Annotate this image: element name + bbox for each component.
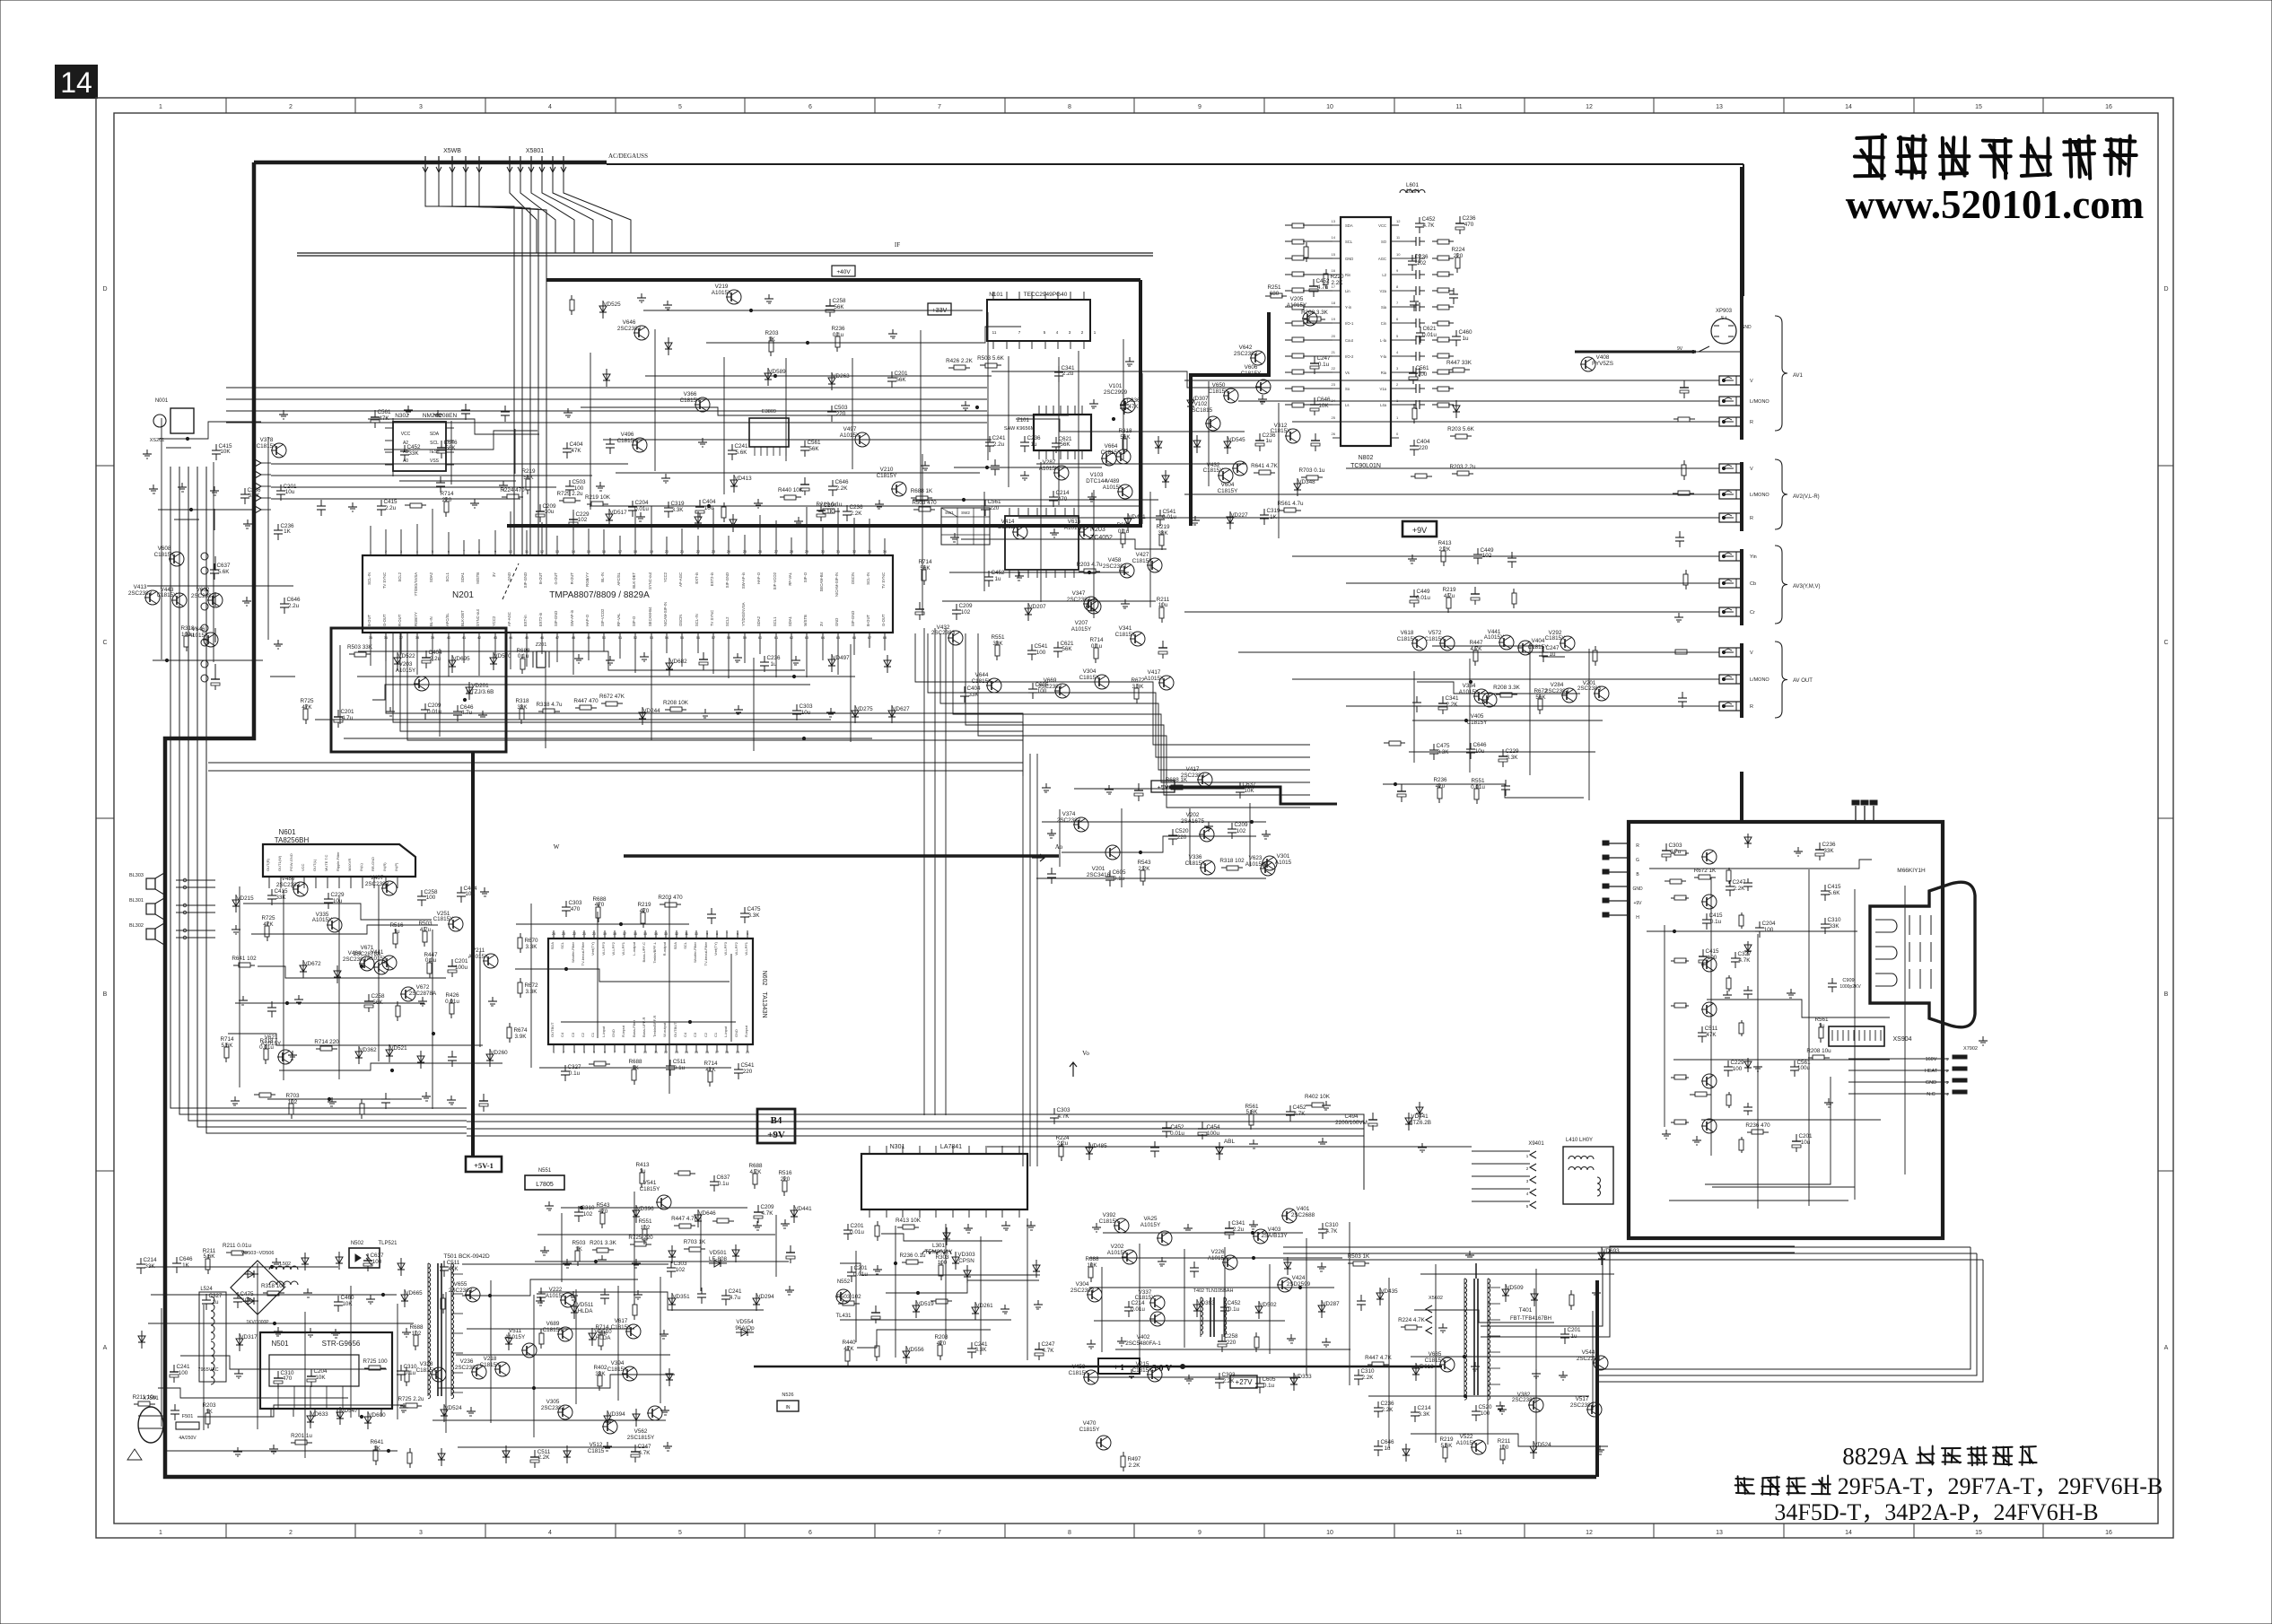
svg-text:OUT1(W): OUT1(W) [277, 855, 282, 871]
resistor [1142, 866, 1144, 870]
svg-text:R208: R208 [934, 1334, 948, 1340]
svg-text:BL-IN: BL-IN [429, 616, 433, 626]
svg-text:19: 19 [650, 549, 654, 554]
svg-text:C1815Y: C1815Y [1132, 1367, 1154, 1374]
svg-text:R201 1u: R201 1u [291, 1433, 312, 1439]
capacitor [1263, 509, 1265, 515]
svg-text:R-OUT: R-OUT [570, 572, 574, 585]
resistor [1413, 404, 1415, 408]
wires key area [159, 422, 261, 439]
svg-text:R: R [1750, 704, 1753, 710]
svg-text:L-output: L-output [632, 941, 636, 956]
svg-text:R688: R688 [1085, 1256, 1099, 1262]
svg-text:9: 9 [1198, 1530, 1202, 1536]
ground [640, 512, 642, 517]
svg-text:470: 470 [1464, 222, 1474, 228]
resistor [1474, 646, 1476, 650]
brace AV1 [1775, 316, 1787, 431]
capacitor [271, 889, 273, 895]
label box +33V [928, 303, 951, 315]
svg-text:13: 13 [1716, 1530, 1723, 1536]
svg-text:SIF-O: SIF-O [632, 616, 636, 626]
svg-text:16: 16 [2105, 1530, 2112, 1536]
svg-text:G-OUT: G-OUT [382, 614, 387, 626]
diode [697, 511, 699, 529]
svg-text:PGW-GND: PGW-GND [289, 853, 293, 871]
svg-text:Vs: Vs [1345, 371, 1350, 375]
svg-text:60: 60 [758, 635, 763, 640]
svg-text:C646: C646 [1472, 742, 1487, 748]
svg-text:R203: R203 [765, 330, 779, 336]
capacitor [569, 480, 571, 486]
svg-text:+9V: +9V [1633, 901, 1642, 906]
svg-text:V408: V408 [1596, 354, 1610, 361]
svg-text:102: 102 [1482, 553, 1492, 559]
svg-text:V394: V394 [611, 1360, 625, 1366]
resistor [1095, 643, 1097, 648]
ground [352, 502, 354, 507]
svg-text:C201: C201 [1798, 1133, 1813, 1139]
svg-text:C637: C637 [370, 1253, 384, 1259]
svg-text:TV SYNC: TV SYNC [881, 572, 886, 589]
svg-text:1K: 1K [182, 1262, 190, 1269]
wires yoke [1472, 1150, 1530, 1152]
diode [505, 1445, 507, 1463]
diode [1297, 478, 1298, 496]
resistor [660, 904, 665, 905]
svg-text:SYNC-out: SYNC-out [648, 572, 652, 589]
svg-text:VD693: VD693 [1602, 1248, 1620, 1254]
svg-text:V489: V489 [1106, 478, 1120, 485]
svg-text:V102: V102 [1194, 401, 1208, 407]
svg-text:470: 470 [937, 1340, 947, 1347]
svg-text:17: 17 [715, 1051, 719, 1054]
label box +9V [1403, 521, 1437, 537]
svg-text:10K: 10K [315, 1375, 326, 1381]
resistor [1452, 473, 1457, 475]
resistor R670 [520, 933, 521, 938]
svg-text:100u: 100u [1207, 1131, 1220, 1137]
svg-text:VD441: VD441 [1411, 1113, 1429, 1120]
svg-text:1u: 1u [994, 576, 1001, 582]
svg-text:2SC2383: 2SC2383 [1067, 597, 1091, 603]
svg-text:R674: R674 [513, 1027, 528, 1034]
svg-text:YT/DIG/NVSA: YT/DIG/NVSA [414, 572, 418, 597]
resistor [939, 1340, 941, 1345]
svg-text:R551: R551 [638, 1218, 652, 1225]
capacitor [483, 1094, 485, 1101]
svg-text:0.1u: 0.1u [425, 957, 437, 964]
svg-text:C452: C452 [1170, 1124, 1184, 1131]
svg-text:100: 100 [1036, 650, 1046, 656]
resistor [233, 965, 239, 966]
ground [924, 461, 926, 466]
svg-text:VD261: VD261 [975, 1303, 993, 1309]
watermark 家电维修资料网 [1855, 135, 1885, 179]
svg-text:C258: C258 [832, 298, 846, 304]
svg-text:A1015Y: A1015Y [312, 917, 333, 923]
diode [671, 1293, 673, 1311]
svg-text:5.6K: 5.6K [204, 1253, 216, 1260]
svg-text:6: 6 [737, 932, 738, 936]
capacitor [565, 901, 567, 907]
svg-text:D: D [102, 286, 107, 292]
svg-text:W-LPF1: W-LPF1 [621, 941, 625, 955]
svg-text:23: 23 [712, 549, 716, 554]
svg-text:VD333: VD333 [1294, 1374, 1312, 1380]
node +130V [1181, 1365, 1185, 1369]
ground [601, 1255, 603, 1260]
capacitor [1314, 397, 1315, 405]
resistor [1808, 1057, 1813, 1059]
svg-text:C201: C201 [1567, 1327, 1581, 1333]
svg-text:0.01u: 0.01u [1170, 1131, 1184, 1137]
svg-text:VD627: VD627 [892, 706, 910, 712]
svg-text:N601: N601 [278, 828, 296, 836]
svg-text:V417: V417 [1186, 766, 1200, 773]
svg-text:V: V [1750, 467, 1753, 472]
capacitor [1128, 1301, 1130, 1307]
capacitor [1502, 749, 1504, 756]
svg-text:53: 53 [650, 635, 654, 640]
svg-text:10uH: 10uH [1405, 188, 1420, 195]
svg-text:8: 8 [1068, 1530, 1071, 1536]
capacitor [1154, 1141, 1156, 1148]
wires psu primary [149, 1266, 338, 1268]
ground [1129, 357, 1131, 362]
svg-text:V2a: V2a [1380, 289, 1387, 293]
linefilter L502 [269, 1266, 298, 1270]
svg-text:63: 63 [805, 635, 809, 640]
svg-text:5: 5 [747, 932, 748, 936]
resistor [226, 1252, 232, 1253]
svg-text:15: 15 [587, 549, 591, 554]
transistor [1261, 861, 1275, 876]
svg-text:8: 8 [1068, 104, 1071, 110]
svg-text:VD294: VD294 [756, 1294, 774, 1300]
svg-text:59: 59 [743, 635, 747, 640]
svg-text:C1815Y: C1815Y [433, 916, 455, 922]
svg-text:HAF-O: HAF-O [585, 614, 590, 626]
transistor V205 [1303, 311, 1317, 326]
svg-text:56K: 56K [808, 446, 819, 452]
svg-text:VD485: VD485 [1089, 1143, 1107, 1149]
capacitor [1412, 366, 1414, 373]
ground [482, 711, 484, 715]
capacitor [1123, 398, 1125, 405]
svg-text:B: B [103, 991, 108, 998]
wire [174, 519, 199, 520]
capacitor [1683, 380, 1685, 388]
ground [1562, 1371, 1564, 1375]
svg-text:A1015Y: A1015Y [1459, 689, 1480, 695]
resistor [1221, 867, 1227, 869]
svg-text:B-OUT: B-OUT [538, 572, 543, 584]
svg-text:OSCIN: OSCIN [678, 615, 683, 626]
transistor V103 [1102, 451, 1116, 466]
svg-text:V497: V497 [843, 426, 857, 432]
diode [443, 1404, 445, 1422]
svg-text:C310: C310 [1360, 1368, 1375, 1375]
svg-text:C452: C452 [1421, 216, 1436, 223]
resistor [1671, 651, 1675, 653]
transistor V606 [1256, 380, 1271, 394]
svg-text:0.01u: 0.01u [634, 506, 649, 512]
bold audio return wire [624, 854, 1059, 858]
svg-text:15: 15 [1975, 104, 1982, 110]
IC N552 TL431 [836, 1289, 851, 1304]
svg-text:YCC2: YCC2 [663, 572, 668, 582]
bold CRT board box [1629, 822, 1943, 1238]
IC N802 TC90L01N [1341, 217, 1391, 446]
svg-text:SW2: SW2 [961, 511, 970, 515]
resistor [897, 1227, 903, 1228]
transistor [1201, 860, 1215, 875]
svg-text:10u: 10u [545, 509, 555, 515]
svg-text:4.7K: 4.7K [1058, 1113, 1070, 1120]
wires CRT board [1649, 860, 1872, 869]
svg-text:XS904: XS904 [1892, 1036, 1911, 1043]
svg-text:96A/Qp: 96A/Qp [735, 1325, 755, 1332]
transistor [1013, 525, 1027, 539]
svg-text:2SC2999: 2SC2999 [1104, 389, 1128, 396]
transistor [1114, 1218, 1129, 1233]
svg-text:C909: C909 [1842, 978, 1854, 983]
ground [1005, 1221, 1007, 1226]
resistor [316, 1048, 320, 1050]
svg-text:VD207: VD207 [1028, 604, 1046, 610]
capacitor [460, 886, 462, 893]
svg-text:C415: C415 [1827, 884, 1841, 890]
capacitor [451, 1051, 453, 1057]
svg-text:IN(L): IN(L) [359, 862, 363, 871]
svg-text:19: 19 [736, 1051, 739, 1054]
ground [643, 652, 645, 657]
svg-text:12: 12 [540, 549, 545, 554]
capacitor [725, 1289, 727, 1296]
svg-text:V304: V304 [1076, 1281, 1089, 1288]
svg-text:Bass-UPF-R: Bass-UPF-R [642, 1017, 646, 1037]
wire CRT heater [1705, 1077, 1831, 1184]
capacitor [1459, 216, 1461, 223]
resistor [1411, 476, 1415, 477]
ground [609, 656, 611, 660]
svg-text:SDA1: SDA1 [788, 616, 792, 626]
svg-text:V618: V618 [1401, 630, 1414, 636]
svg-text:C258: C258 [1224, 1333, 1238, 1340]
svg-text:20: 20 [1332, 334, 1336, 338]
ground [246, 597, 248, 601]
svg-text:V336: V336 [1189, 854, 1202, 860]
transistor [1529, 1398, 1543, 1412]
svg-text:Lin: Lin [1345, 289, 1350, 293]
svg-text:R219: R219 [1442, 587, 1456, 593]
ground [1018, 572, 1020, 576]
yoke coils L410 [1563, 1147, 1613, 1204]
transistor V541 [657, 1195, 671, 1209]
svg-text:R203 4.7u: R203 4.7u [1076, 562, 1103, 568]
diode [339, 1407, 341, 1425]
ground [878, 500, 880, 504]
ecap C454 [1202, 1122, 1203, 1129]
svg-text:47K: 47K [843, 1346, 854, 1352]
svg-text:C303: C303 [1668, 843, 1682, 849]
N802 pin resistors [1285, 224, 1292, 226]
ground [578, 654, 580, 659]
svg-text:2.2K: 2.2K [538, 1454, 551, 1461]
arrow Ao [1032, 854, 1044, 861]
svg-text:Ls: Ls [1345, 403, 1349, 407]
diode [974, 1302, 976, 1320]
resistor [601, 703, 606, 704]
capacitor [831, 406, 833, 412]
svg-text:V202: V202 [1186, 812, 1200, 818]
svg-text:VD413: VD413 [734, 476, 752, 482]
resistor R497 [1123, 1452, 1124, 1456]
IC N301 LA7841 [861, 1154, 1027, 1209]
capacitor [1416, 696, 1418, 703]
ground [275, 1258, 277, 1262]
ground [544, 1246, 546, 1251]
svg-text:24: 24 [727, 549, 731, 554]
svg-text:11: 11 [654, 1051, 658, 1054]
capacitor [1702, 949, 1704, 956]
diode [608, 509, 610, 527]
svg-text:2.2u: 2.2u [385, 505, 397, 511]
svg-text:64: 64 [821, 635, 826, 640]
capacitor [1727, 1061, 1729, 1067]
capacitor [374, 410, 376, 417]
svg-text:TV SYNC: TV SYNC [382, 572, 387, 589]
resistor [877, 1221, 878, 1226]
svg-text:1K: 1K [768, 336, 776, 343]
svg-text:VD556: VD556 [906, 1347, 924, 1353]
capacitor [174, 1404, 176, 1410]
label box +5V [1151, 781, 1175, 792]
label box B4 +9V [757, 1109, 795, 1143]
ground [1208, 822, 1210, 826]
svg-text:C1815Y: C1815Y [1099, 1218, 1121, 1225]
svg-text:C605: C605 [1112, 869, 1126, 876]
capacitor [578, 1206, 580, 1212]
svg-text:+9V: +9V [1412, 526, 1427, 535]
diode [235, 895, 237, 912]
svg-text:A1015Y: A1015Y [1071, 626, 1092, 633]
svg-text:SDA: SDA [550, 942, 555, 950]
svg-text:33K: 33K [144, 1263, 155, 1270]
svg-text:R725 2.2u: R725 2.2u [556, 491, 583, 497]
svg-text:L502: L502 [280, 1262, 291, 1267]
diode [1419, 1102, 1420, 1120]
svg-text:0.01u: 0.01u [850, 1229, 864, 1235]
svg-text:VD394: VD394 [607, 1411, 625, 1418]
resistor [349, 653, 354, 655]
CRT tube socket [1870, 882, 1975, 1027]
svg-text:0.01u: 0.01u [1131, 1306, 1145, 1313]
ground [406, 1328, 407, 1332]
svg-text:R426 2.2K: R426 2.2K [946, 358, 974, 364]
svg-text:2SC2383: 2SC2383 [449, 1288, 473, 1294]
diode [420, 1051, 422, 1069]
svg-text:V205: V205 [1290, 296, 1304, 302]
capacitor [244, 488, 246, 494]
label box +130V [1098, 1358, 1140, 1374]
ground [389, 707, 391, 712]
ground [1797, 847, 1799, 851]
svg-text:VD547: VD547 [340, 1408, 358, 1414]
svg-text:C452: C452 [991, 570, 1005, 576]
svg-text:17: 17 [618, 549, 623, 554]
svg-text:VD672: VD672 [303, 961, 321, 967]
wire CRT bottom elbow [1481, 1253, 1795, 1326]
svg-text:16: 16 [1332, 268, 1336, 273]
svg-text:C214: C214 [1055, 490, 1070, 496]
capacitor [465, 404, 467, 410]
capacitor [1511, 552, 1513, 558]
svg-text:R-output: R-output [662, 941, 667, 956]
diode [404, 1289, 406, 1307]
svg-text:1u: 1u [770, 661, 777, 668]
svg-text:100u: 100u [181, 632, 195, 638]
svg-text:0.1u: 0.1u [1118, 528, 1130, 535]
bold IF box wire [546, 278, 1140, 282]
svg-text:VD633: VD633 [310, 1411, 328, 1418]
resistor [931, 1300, 936, 1302]
capacitor [1564, 1328, 1566, 1334]
svg-text:2: 2 [563, 1051, 564, 1054]
diode [141, 1331, 143, 1349]
svg-text:R714: R714 [220, 1036, 234, 1043]
capacitor [1058, 366, 1060, 372]
resistor [589, 1063, 594, 1065]
capacitor [1322, 1223, 1324, 1229]
svg-text:4.7u: 4.7u [730, 1295, 741, 1301]
svg-text:L601: L601 [1406, 182, 1420, 188]
svg-text:Woofer-Filter: Woofer-Filter [693, 941, 697, 963]
resistor [1685, 570, 1687, 574]
svg-text:R516: R516 [389, 922, 404, 929]
capacitor [699, 500, 701, 507]
svg-text:14: 14 [685, 1051, 688, 1054]
diode [607, 1410, 608, 1428]
resistor [902, 1262, 906, 1263]
ground [548, 1201, 550, 1206]
capacitor [701, 1288, 703, 1294]
ground [663, 1330, 665, 1334]
resistor [1595, 646, 1596, 650]
svg-text:VCC: VCC [401, 432, 411, 437]
svg-text:A1015: A1015 [1275, 860, 1292, 866]
svg-text:C415: C415 [274, 888, 288, 895]
capacitor [1401, 784, 1403, 791]
ground [1421, 1143, 1423, 1148]
svg-text:R641 4.7K: R641 4.7K [1251, 463, 1279, 469]
svg-text:67: 67 [868, 635, 872, 640]
ground [756, 1221, 758, 1226]
svg-text:C327: C327 [567, 1064, 581, 1070]
ground [292, 1051, 293, 1055]
svg-text:SW1: SW1 [945, 511, 954, 515]
svg-text:100: 100 [1481, 1410, 1490, 1417]
svg-text:GND: GND [734, 1029, 738, 1037]
svg-text:5.6K: 5.6K [736, 450, 748, 456]
capacitor [711, 908, 712, 914]
svg-text:C236: C236 [849, 504, 863, 511]
transistor V408 [1581, 357, 1595, 371]
capacitor [1219, 1373, 1220, 1379]
svg-text:2SA1675: 2SA1675 [1181, 818, 1204, 825]
svg-text:AV3(Y,M,V): AV3(Y,M,V) [1793, 584, 1820, 589]
